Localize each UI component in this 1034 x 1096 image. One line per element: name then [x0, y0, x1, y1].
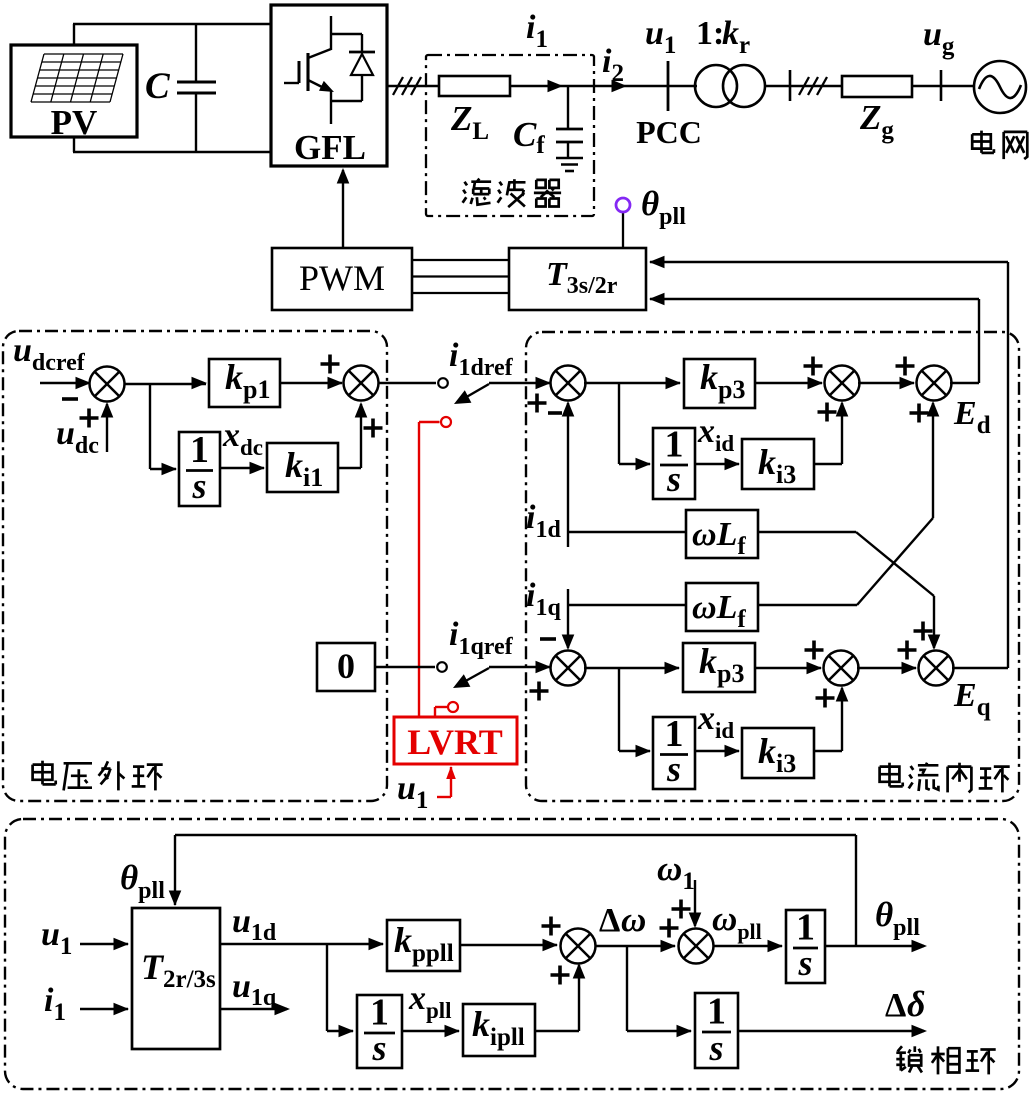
wire Z_L to PCC with arrows	[510, 80, 668, 93]
label x_id q	[697, 700, 734, 743]
sign plus Sq2 top	[805, 641, 824, 660]
label theta_pll (feedback)	[120, 858, 165, 904]
wire u_1d to k_ppll	[220, 938, 384, 951]
label E_d	[953, 395, 991, 439]
wire k_i1 to S2	[338, 402, 367, 468]
wire i_1d to omegaLf	[568, 531, 686, 533]
label k_i3 d	[758, 442, 796, 489]
wire x_id to k_i3	[695, 458, 740, 471]
switch arm d-axis	[454, 377, 551, 404]
label 0	[337, 646, 355, 686]
label 锁相环	[896, 1046, 995, 1074]
svg-text:1:: 1:	[696, 15, 724, 52]
summing junction Sq1	[551, 651, 586, 686]
wire Sd2 to Sd3	[858, 377, 915, 390]
sign plus S2 bottom	[364, 419, 383, 438]
switch contact d (LVRT)	[441, 417, 451, 427]
wire k_i3 to Sd2	[814, 401, 848, 464]
wire delta-delta output	[738, 1025, 927, 1038]
wire k_ipll to Sp1	[535, 963, 585, 1031]
impedance Z_L	[439, 76, 510, 96]
svg-text:GFL: GFL	[294, 128, 366, 167]
solar panel icon	[31, 54, 123, 102]
wire branch to integrator	[150, 383, 177, 475]
svg-text:1: 1	[707, 991, 726, 1033]
svg-text:Δ: Δ	[599, 902, 620, 939]
label x_dc	[222, 417, 263, 460]
IGBT with freewheeling diode icon	[284, 16, 375, 124]
label delta-delta	[885, 984, 925, 1024]
svg-text:s: s	[191, 466, 206, 506]
PV label	[51, 103, 98, 142]
label i_1q	[526, 577, 561, 621]
sign plus Sp1 top	[542, 917, 561, 936]
label i_1 (pll input)	[44, 982, 66, 1026]
wire S2 to switch contact	[378, 382, 436, 384]
wire u_1 input	[80, 938, 129, 951]
wire x_pll to k_ipll	[402, 1025, 460, 1038]
summing junction Sp2	[679, 929, 714, 964]
wire k_ppll to Sp1	[460, 939, 558, 952]
summing junction Sd1	[551, 366, 586, 401]
wire omega_1 input	[689, 880, 702, 928]
wire Sd3 output E_d	[950, 382, 979, 384]
label i_1qref	[449, 616, 514, 660]
sign plus Sp2 above	[672, 900, 691, 919]
block k_p3 (d)	[684, 359, 755, 408]
summing junction Sd2	[825, 366, 860, 401]
wire theta_pll feedback top	[169, 835, 856, 946]
summing junction Sd3	[917, 366, 952, 401]
node u_g tick	[940, 70, 943, 101]
sign plus Sd2 top	[804, 357, 823, 376]
sign minus Sd1	[548, 411, 562, 415]
transformer 1:k_r	[695, 65, 765, 107]
label k_i3 q	[758, 731, 796, 778]
wire i_1q feedback	[562, 589, 575, 650]
label u_dcref	[13, 332, 86, 376]
label x_id	[697, 413, 734, 456]
sign plus Sq3 top	[914, 622, 933, 641]
wire 0 to switch contact	[375, 666, 435, 668]
label 滤波器	[463, 179, 561, 208]
sign plus Sd2 bottom	[818, 403, 837, 422]
svg-text:ω: ω	[621, 900, 646, 939]
svg-text:PV: PV	[51, 103, 98, 142]
wire Sp2 to integrator	[713, 940, 783, 953]
switch contact q (LVRT)	[448, 702, 458, 712]
label u_1q	[232, 968, 277, 1011]
label C	[145, 66, 171, 107]
sign plus S2 top	[321, 355, 340, 374]
integrator 1/s (dc)	[179, 429, 220, 506]
wire i_1d feedback	[562, 401, 575, 547]
wire LVRT to d contact (red)	[419, 422, 440, 717]
svg-text:Δ: Δ	[885, 987, 906, 1024]
summing junction S2	[344, 366, 379, 401]
wire Sq1 to k_p3 q	[584, 662, 680, 675]
wire branch u_1d to integrator	[327, 944, 354, 1037]
label Z_g	[859, 98, 894, 144]
node theta_pll tap	[616, 198, 630, 248]
wire E_d feedback to T3s/2r	[649, 293, 979, 383]
capacitor C	[177, 24, 216, 152]
label PCC	[636, 114, 702, 150]
label k_ppll	[394, 920, 454, 967]
block k_i3 (q)	[742, 728, 814, 778]
switch arm q-axis	[453, 661, 551, 688]
wire branch to integrator d	[619, 383, 651, 470]
sign plus Sq1	[530, 682, 549, 701]
wire GFL output	[387, 85, 439, 87]
inverter GFL block	[271, 5, 387, 166]
wire S1 to k_p1	[124, 377, 207, 390]
wire k_p1 to S2	[280, 377, 343, 390]
label T_2r/3s	[141, 947, 216, 993]
transform block T_2r/3s	[132, 908, 220, 1049]
label u_g	[923, 16, 955, 60]
label u_1 (LVRT input)	[397, 770, 428, 814]
svg-text:s: s	[666, 749, 681, 789]
label 电网	[972, 131, 1027, 160]
GFL label	[294, 128, 366, 167]
label 1:k_r	[696, 15, 750, 59]
sign minus S1	[62, 397, 78, 401]
wire i_1 input	[80, 1003, 129, 1016]
wire theta_pll output	[825, 940, 927, 953]
sign plus Sq3 left	[898, 641, 917, 660]
svg-text:s: s	[371, 1028, 386, 1068]
label theta_pll (output)	[875, 895, 920, 941]
sign plus Sp1 bottom	[551, 966, 570, 985]
transform block T_3s/2r	[509, 248, 646, 310]
svg-text:δ: δ	[907, 984, 925, 1024]
cross-coupling wire d to Eq	[758, 532, 940, 650]
voltage outer loop dash-dot box	[3, 331, 387, 801]
integrator 1/s (pll)	[357, 992, 402, 1069]
three-phase slashes (grid side)	[799, 77, 827, 95]
sign plus S1	[80, 409, 99, 428]
svg-text:1: 1	[190, 429, 209, 471]
svg-text:C: C	[145, 66, 171, 107]
sign plus Sd3 bottom	[910, 404, 929, 423]
svg-text:0: 0	[337, 646, 355, 686]
label Z_L	[450, 99, 489, 145]
svg-text:LVRT: LVRT	[407, 722, 502, 762]
ground	[556, 158, 583, 171]
label omega_pll	[712, 899, 762, 944]
block omega-L_f (q)	[686, 583, 758, 631]
impedance Z_g	[842, 76, 912, 97]
label omega-L_f q	[692, 589, 746, 633]
wire k_p3 to Sd2	[755, 377, 823, 390]
sign minus Sq1	[540, 637, 556, 641]
block k_ppll	[387, 920, 460, 971]
integrator 1/s (q)	[653, 713, 695, 789]
wire k_p3 to Sq2	[755, 662, 822, 675]
wire u_1q output	[220, 1003, 290, 1016]
wire u_1 to LVRT (red)	[437, 766, 456, 797]
integrator 1/s (d)	[653, 424, 695, 500]
sign plus Sd1	[528, 394, 547, 413]
wire Sq3 output E_q	[952, 667, 1008, 669]
label 电流内环	[880, 763, 1010, 793]
block k_i1	[267, 443, 338, 492]
bus lines PWM to T3s/2r	[412, 260, 509, 293]
summing junction Sq2	[824, 651, 859, 686]
label i_1dref	[449, 337, 514, 381]
label k_ipll	[472, 1004, 525, 1051]
wire u_dcref input	[40, 377, 91, 390]
label i_1	[526, 9, 548, 53]
label E_q	[953, 677, 991, 721]
integrator 1/s (delta)	[695, 991, 738, 1069]
label T_3s/2r	[546, 256, 618, 299]
svg-text:PCC: PCC	[636, 114, 702, 150]
wire PWM to GFL	[337, 168, 350, 248]
summing junction S1 (udc)	[90, 367, 125, 402]
cross-coupling wire q to Ed	[758, 401, 939, 605]
switch contact i_1dref (normal)	[438, 378, 448, 388]
LVRT block (red)	[394, 717, 517, 764]
sign plus Sq2 bottom	[816, 689, 835, 708]
summing junction Sq3	[919, 651, 954, 686]
label i_1d	[526, 499, 561, 543]
switch contact i_1qref (normal)	[437, 662, 447, 672]
label k_p3 d	[700, 357, 745, 404]
label x_pll	[408, 980, 452, 1023]
label omega_1	[657, 849, 695, 895]
tick after transformer	[789, 70, 792, 101]
label u_dc	[56, 415, 99, 459]
svg-text:s: s	[666, 459, 681, 499]
block k_p3 (q)	[683, 643, 755, 692]
wire u_dc input	[101, 402, 114, 452]
wire Sq2 to Sq3	[857, 662, 917, 675]
sign plus Sp2 left	[660, 919, 679, 938]
PLL dash-dot box	[5, 819, 1019, 1089]
svg-text:PWM: PWM	[299, 258, 385, 298]
PWM block	[272, 248, 412, 310]
wire Z_g to grid source	[912, 85, 975, 87]
block k_p1	[209, 359, 280, 407]
summing junction Sp1	[561, 929, 596, 964]
label C_f	[513, 115, 545, 159]
wire LVRT to q contact (red)	[435, 707, 448, 717]
wire x_id to k_i3 q	[695, 745, 740, 758]
svg-text:s: s	[708, 1028, 723, 1068]
label u_1d	[232, 903, 277, 946]
block 0	[317, 643, 375, 691]
wire Sp1 to Sp2	[595, 940, 676, 953]
node PCC tick	[667, 61, 670, 111]
block k_i3 (d)	[742, 439, 814, 489]
wire x_dc to k_i1	[220, 462, 265, 475]
block k_ipll	[463, 1004, 535, 1056]
wire E_q feedback to T3s/2r	[649, 256, 1008, 668]
wire PV to DC bus top rail	[73, 24, 272, 46]
label LVRT	[407, 722, 502, 762]
wire branch to integrator q	[619, 668, 651, 757]
label 电压外环	[33, 761, 163, 791]
label k_p1	[225, 357, 270, 404]
wire transformer to Z_g	[765, 85, 842, 87]
PWM label	[299, 258, 385, 298]
label delta-omega	[599, 900, 646, 939]
integrator 1/s (theta)	[786, 907, 825, 984]
label omega-L_f d	[692, 516, 746, 560]
wire PCC to transformer	[668, 85, 697, 87]
wire Sd1 to k_p3	[584, 377, 681, 390]
PV block	[11, 45, 137, 137]
wire PV to DC bus bottom rail	[73, 136, 272, 152]
label u_1 (PCC)	[645, 15, 676, 59]
wire i_1q to omegaLf	[568, 604, 686, 606]
three-phase slashes	[393, 77, 421, 95]
filter dashed box 滤波器	[426, 55, 594, 216]
label k_p3 q	[699, 641, 744, 688]
label u_1 (pll input)	[41, 916, 72, 960]
AC grid source	[974, 61, 1026, 113]
wire k_i3 to Sq2	[814, 686, 848, 751]
wire branch to integrator delta	[627, 946, 692, 1037]
label i_2	[602, 43, 624, 87]
current inner loop dash-dot box	[526, 332, 1019, 801]
svg-text:s: s	[797, 943, 812, 983]
label k_i1	[285, 445, 323, 492]
label theta_pll (tap)	[641, 184, 686, 230]
sign plus Sd3 top	[896, 357, 915, 376]
block omega-L_f (d)	[686, 510, 758, 558]
filter capacitor C_f	[556, 86, 583, 157]
